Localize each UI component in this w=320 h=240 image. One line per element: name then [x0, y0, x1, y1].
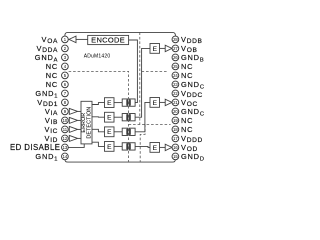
wire VOA buffer to ENCODE	[76, 38, 88, 40]
decoder E (VOC)	[150, 98, 160, 108]
pin 2 VDDA	[62, 45, 69, 52]
ERROR DETECTION block	[81, 101, 92, 144]
svg-text:10: 10	[63, 118, 68, 123]
wire ED DISABLE to ERROR DETECTION	[68, 144, 84, 148]
wire E3 to transformer T3	[114, 131, 122, 133]
input buffer VIC	[78, 128, 81, 130]
svg-text:12: 12	[63, 136, 68, 141]
pin 27 VOB	[172, 45, 179, 52]
pin 20 GNDC	[172, 108, 179, 115]
pin 21 VOC	[172, 99, 179, 106]
svg-text:17: 17	[173, 136, 178, 141]
pin 18 NC	[172, 126, 179, 133]
pin 17 VDDD	[172, 135, 179, 142]
wire decoder to buffer C	[160, 101, 166, 103]
wire T4 to decoder VOD	[135, 146, 150, 147]
encoder E3	[105, 127, 115, 137]
transformer T3	[122, 128, 135, 135]
svg-text:25: 25	[173, 64, 178, 69]
pin 11 VIC	[62, 126, 69, 133]
pin 9 VIA	[62, 108, 69, 115]
wire ENCODE feed from transformer 1	[129, 40, 138, 103]
svg-text:DETECTION: DETECTION	[86, 107, 92, 139]
pin 5 NC	[62, 72, 69, 79]
encoder E1	[105, 98, 115, 108]
decoder E (VOD)	[150, 143, 160, 153]
pin 3 GNDA	[62, 54, 69, 61]
pin 15 GNDD	[172, 153, 179, 160]
svg-text:18: 18	[173, 127, 178, 132]
svg-text:13: 13	[63, 145, 68, 150]
svg-text:E: E	[107, 144, 112, 151]
input buffer VIA	[78, 110, 81, 112]
wire channel 1 ERROR DETECTION to encoder E1	[92, 103, 105, 105]
svg-text:16: 16	[173, 145, 178, 150]
svg-text:E: E	[153, 145, 158, 152]
isolation barrier (dashed, right vertical from top)	[139, 32, 141, 124]
buffer C (drives VOC pin 21)	[165, 99, 172, 105]
svg-text:NC: NC	[46, 71, 58, 80]
svg-text:21: 21	[173, 100, 178, 105]
svg-text:NC: NC	[46, 80, 58, 89]
wire E2 to transformer T2	[114, 116, 122, 118]
transformer T4	[122, 143, 135, 150]
pin 19 NC	[172, 117, 179, 124]
svg-text:ENCODE: ENCODE	[91, 35, 125, 44]
wire T3 to decoder VOC	[135, 102, 150, 131]
svg-text:23: 23	[173, 82, 178, 87]
pin 25 NC	[172, 63, 179, 70]
svg-text:E: E	[107, 129, 112, 136]
wire channel 4	[92, 142, 105, 146]
buffer D (drives VOD pin 16)	[165, 144, 172, 150]
svg-text:ED DISABLE: ED DISABLE	[10, 143, 60, 152]
svg-text:24: 24	[173, 73, 178, 78]
svg-text:E: E	[107, 115, 112, 122]
svg-text:ADuM1420: ADuM1420	[84, 53, 111, 59]
package outline U1 (bottom edge)	[65, 159, 175, 162]
domain C/D separator (dashed)	[129, 124, 171, 126]
pin 22 VDDC	[172, 90, 179, 97]
isolation barrier (dashed, left horizontal + through transformers)	[69, 71, 129, 162]
wire decoder to buffer D	[160, 146, 166, 148]
pin 28 VDDB	[172, 36, 179, 43]
wire E4 to transformer T4	[114, 145, 122, 147]
pin 13 ED DISABLE	[62, 144, 69, 151]
right pin labels	[181, 35, 205, 162]
pin 24 NC	[172, 72, 179, 79]
pin 7 GND1	[62, 90, 69, 97]
pin 23 GNDC	[172, 81, 179, 88]
svg-text:E: E	[153, 46, 158, 53]
svg-text:15: 15	[173, 154, 178, 159]
left pin labels	[10, 35, 60, 162]
svg-text:28: 28	[173, 37, 178, 42]
pin 6 NC	[62, 81, 69, 88]
pin 8 VDD1	[62, 99, 69, 106]
ENCODE block	[88, 35, 129, 44]
buffer B (drives VOB pin 27)	[165, 45, 172, 51]
pin 1 VOA	[62, 36, 69, 43]
wire channel 2	[92, 116, 105, 118]
svg-text:19: 19	[173, 118, 178, 123]
right pin circles 28-15	[172, 36, 179, 160]
decoder E (VOB)	[150, 44, 160, 54]
buffer A (drives VOA pin 1)	[69, 36, 76, 43]
encoder E4	[105, 142, 115, 152]
package outline U1 (top edge)	[65, 32, 175, 36]
svg-text:E: E	[153, 100, 158, 107]
svg-text:NC: NC	[181, 125, 193, 134]
svg-text:NC: NC	[181, 116, 193, 125]
left pin circles 1-14	[62, 36, 69, 160]
transformer T1	[122, 99, 135, 106]
svg-text:NC: NC	[46, 62, 58, 71]
svg-text:E: E	[107, 100, 112, 107]
svg-text:20: 20	[173, 109, 178, 114]
pin numbers right	[173, 37, 178, 159]
pin 16 VOD	[172, 144, 179, 151]
svg-text:26: 26	[173, 55, 178, 60]
svg-text:NC: NC	[181, 62, 193, 71]
wire E1 to transformer T1	[114, 102, 122, 104]
svg-text:22: 22	[173, 91, 178, 96]
transformer T2	[122, 114, 135, 121]
wire channel 3	[92, 129, 105, 132]
pin 26 GNDB	[172, 54, 179, 61]
domain B/C separator (dashed)	[142, 70, 168, 72]
pin numbers left	[63, 37, 68, 159]
svg-text:14: 14	[63, 154, 68, 159]
pin 4 NC	[62, 63, 69, 70]
svg-text:NC: NC	[181, 71, 193, 80]
pin 10 VIB	[62, 117, 69, 124]
domain D barrier weave (dashed)	[140, 125, 145, 163]
wire T2 to decoder VOB	[135, 48, 150, 117]
svg-text:11: 11	[63, 127, 68, 132]
pin 14 GND1	[62, 153, 69, 160]
encoder E2	[105, 112, 115, 122]
input buffer VID	[78, 137, 81, 139]
input buffer VIB	[78, 119, 81, 121]
pin 12 VID	[62, 135, 69, 142]
svg-text:27: 27	[173, 46, 178, 51]
wire decoder to buffer B	[160, 47, 166, 49]
